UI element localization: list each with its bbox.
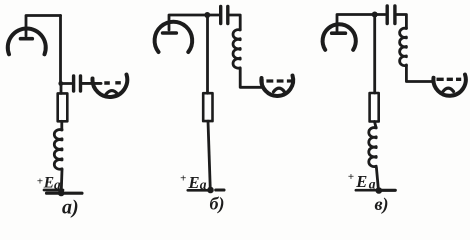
wire: choke down to +Ea rail (v) (376, 168, 378, 191)
label underline for +Ea (v) (356, 189, 377, 192)
tube V2b grid (dashed line) (266, 79, 291, 82)
tube V2v grid (dashed line) (437, 78, 462, 81)
wire: capacitor to top of coil L1v (397, 15, 407, 29)
tube V1b anode plate (T bar) (163, 31, 177, 35)
svg-text:E: E (355, 172, 367, 191)
wire: junction to capacitor C1a (61, 82, 72, 85)
tube V1a anode plate (T bar) (21, 37, 33, 41)
wire: +Ea rail right stub (b) (216, 188, 224, 191)
svg-text:а: а (54, 177, 61, 192)
wire: choke down to +Ea rail (60, 170, 64, 193)
wire: resistor down to +Ea rail (b) (208, 121, 210, 190)
inductor L2v (anode choke, loops) (369, 128, 376, 167)
tube V2v envelope (arc open at top) (433, 75, 465, 96)
wire: junction down to resistor R1b (206, 15, 209, 93)
svg-text:а: а (200, 177, 207, 192)
svg-text:+: + (37, 176, 43, 188)
capacitor C1a plate 2 (79, 76, 82, 91)
inductor L1b (grid coil, loops) (233, 30, 240, 69)
svg-text:в): в) (375, 194, 389, 215)
resistor R1v (370, 93, 379, 122)
resistor R1a (58, 93, 68, 121)
tube V1b envelope (arc open at bottom) (155, 22, 193, 52)
tube V2v cathode (small arc) (443, 88, 454, 91)
svg-text:E: E (188, 173, 200, 192)
tube V2a cathode (small arc) (106, 91, 118, 95)
wire: +Ea supply rail (a) (47, 192, 83, 195)
label +Ea (v) (348, 171, 376, 192)
capacitor C1b plate 1 (219, 7, 222, 24)
tube V1a envelope (arc open at bottom) (8, 29, 46, 55)
label underline for +Ea (b) (188, 189, 209, 192)
wire: plate of V1v up and right to capacitor C1v (337, 15, 385, 32)
tube V1v envelope (arc open at bottom) (323, 24, 356, 50)
inductor L1a (anode choke, loops) (54, 130, 62, 170)
wire: main vertical drop to grid-capacitor junction (59, 16, 62, 85)
capacitor C1v plate 1 (386, 6, 389, 24)
wire: plate of V1b up and right to capacitor C1b (169, 15, 219, 30)
wire: plate of V1a up and over to main vertical (26, 16, 61, 37)
node: rail junction dot (b) (207, 187, 214, 194)
wire: +Ea rail right stub (v) (381, 189, 396, 192)
label underline for +Ea (a) (44, 189, 63, 192)
wire: resistor to choke L2v (375, 122, 377, 128)
svg-text:б): б) (210, 194, 225, 215)
svg-text:+: + (180, 173, 186, 185)
wire: capacitor to top of coil L1b (230, 15, 241, 30)
wire: coil down and right to grid of V2v (406, 65, 433, 82)
wire: junction down to resistor R1a (60, 84, 63, 93)
node: top junction dot (b) (204, 12, 210, 18)
node: junction at grid capacitor tap (58, 81, 63, 86)
svg-text:+: + (348, 171, 354, 183)
wire: resistor to choke L1a (60, 121, 63, 130)
tube V2a grid (dashed line) (104, 81, 121, 85)
label +Ea (a) (37, 175, 61, 192)
tube V2b cathode (small arc) (274, 88, 285, 92)
wire: junction down to resistor R1v (373, 15, 376, 94)
tube V2b envelope (arc open at top) (261, 76, 293, 96)
svg-text:а: а (369, 177, 376, 192)
svg-text:E: E (43, 175, 54, 192)
capacitor C1v plate 2 (393, 6, 396, 24)
wire: capacitor to grid of V2a (82, 82, 101, 85)
wire: coil down and right to grid of V2b (240, 69, 262, 88)
node: rail junction dot (a) (58, 190, 65, 197)
label +Ea (b) (180, 173, 207, 193)
resistor R1b (203, 93, 212, 121)
node: top junction dot (v) (372, 12, 378, 18)
inductor L1v (grid coil, loops) (400, 28, 407, 65)
capacitor C1a plate 1 (72, 76, 75, 91)
capacitor C1b plate 2 (226, 7, 229, 24)
node: rail junction dot (v) (376, 187, 383, 194)
tube V2a envelope (arc open at top) (92, 75, 127, 98)
svg-text:а): а) (62, 197, 79, 219)
tube V1v anode plate (T bar) (332, 31, 346, 35)
